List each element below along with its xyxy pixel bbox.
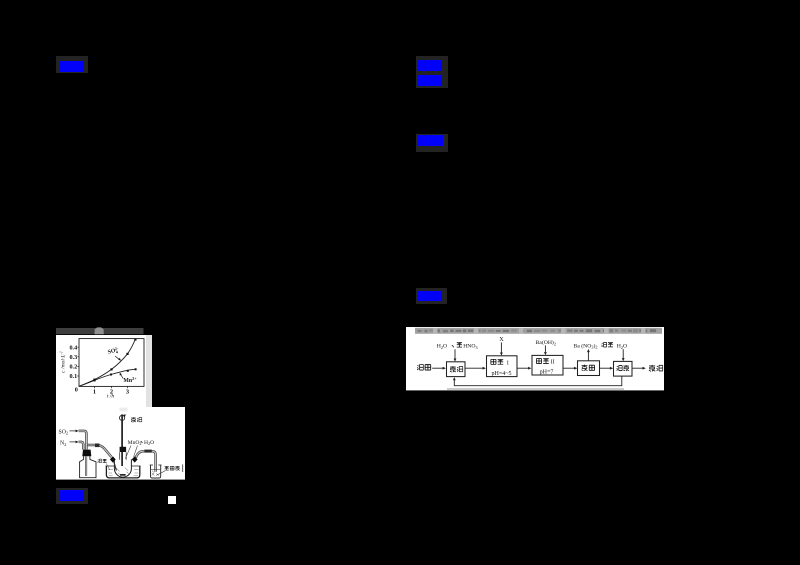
stirrer shaft (121, 414, 123, 466)
tube N2 to junction (outer) (79, 442, 84, 450)
tube flask to beaker (outer) (136, 451, 156, 472)
white apparatus panel (56, 407, 185, 480)
output label 残渣 (649, 365, 655, 372)
SO4 curve (79, 339, 135, 386)
white flowchart panel (406, 327, 664, 390)
box1 酸溶 (447, 362, 466, 377)
svg-text:0.4: 0.4 (69, 344, 77, 351)
dark coupler on junction tube (95, 444, 99, 448)
SO4 data points (93, 338, 136, 380)
arrow box3 to box4 (563, 367, 574, 369)
scrollbar thumb tab (95, 327, 104, 334)
svg-text:X: X (499, 336, 504, 343)
shared pseudo-glyph symbol defs (0, 0, 1, 1)
link badge 4 (right col lower) (416, 288, 447, 304)
svg-text:1: 1 (93, 389, 96, 396)
Mn data points (94, 368, 137, 381)
faint tab at top (120, 408, 128, 412)
flask vessel (wide U) (114, 459, 131, 477)
x axis labels (93, 389, 129, 396)
arrow box5 to output (632, 367, 643, 369)
scrollbar bar above graph (56, 328, 144, 334)
dark coupler on outlet tube (144, 450, 151, 453)
right port stopper (132, 456, 138, 462)
svg-text:H2O: H2O (617, 344, 627, 350)
basin rim line (106, 465, 141, 467)
light strip at bottom (447, 388, 624, 390)
tube inner cores (79, 431, 87, 450)
beaker liquid hatching (152, 471, 159, 476)
svg-text:HNO3: HNO3 (463, 344, 477, 350)
box3 中和II pH=7 (532, 355, 563, 375)
arrow box4 to box5 (600, 367, 611, 369)
box2 中和1 pH=4~5 (487, 356, 518, 377)
N2 arrow (70, 441, 77, 443)
arrow up from box4 (587, 352, 589, 361)
svg-text:N2: N2 (60, 441, 66, 447)
Mn label arrow (120, 374, 123, 378)
link badge 1 (top-left) (56, 56, 88, 73)
gas inlet tube inside flask (114, 462, 117, 471)
Mn curve (79, 369, 136, 386)
svg-text:1: 1 (506, 360, 509, 366)
plot frame (79, 339, 144, 387)
input label 钡泥 (417, 365, 423, 371)
light gray strip right of panel (146, 335, 152, 408)
recycle line box5 bottom to box1 bottom (454, 376, 622, 386)
石灰乳 label (165, 466, 169, 470)
svg-text:3: 3 (126, 389, 129, 396)
leader to beaker (156, 471, 165, 475)
svg-text:pH=4~5: pH=4~5 (492, 371, 512, 377)
rubber stopper on bottle (82, 450, 91, 457)
box5 洗涤 (614, 361, 633, 376)
SO2 arrow (70, 430, 77, 432)
watermark strip (415, 328, 662, 334)
svg-text:t /h: t /h (107, 394, 115, 400)
svg-text:H2O: H2O (437, 344, 447, 350)
center neck lines (120, 452, 127, 460)
link badge 3 (right col) (416, 134, 448, 152)
svg-text:Ba (NO3)2: Ba (NO3)2 (574, 342, 598, 349)
svg-text:MnO2: MnO2 (128, 440, 142, 446)
svg-text:pH=7: pH=7 (540, 369, 554, 375)
arrow down H2O into box5 (622, 349, 624, 358)
svg-text:SO2: SO2 (59, 429, 69, 435)
shaft bearing block (120, 447, 127, 452)
arrow down X into box2 (500, 342, 502, 353)
arrow down into box1 (454, 349, 456, 359)
arrow down Ba(OH)2 into box3 (544, 345, 546, 352)
SO4 label arrow (115, 356, 120, 360)
stirrer paddle (120, 474, 126, 476)
left port stopper (110, 456, 116, 462)
link badge 2 (right col, double) (416, 56, 448, 88)
arrow box1 to box2 (465, 367, 483, 369)
svg-text:H2O: H2O (144, 440, 154, 446)
水浴 label (98, 459, 102, 463)
水浴 leader (106, 463, 110, 469)
svg-text:0: 0 (75, 387, 78, 394)
arrow input to box1 (432, 367, 443, 369)
beaker rim ticks (150, 464, 162, 466)
svg-text:0.1: 0.1 (69, 373, 77, 380)
x tick marks (95, 386, 128, 388)
water-bath basin (106, 466, 139, 478)
tube junction to flask (outer) (88, 445, 112, 457)
reaction apparatus image (56, 407, 185, 480)
y tick marks (77, 347, 79, 376)
arrow box2 to box3 (517, 367, 528, 369)
y axis labels (69, 344, 77, 393)
svg-text:0.2: 0.2 (69, 364, 77, 371)
svg-text:0.3: 0.3 (69, 354, 77, 361)
bottle inner tube (85, 457, 86, 477)
white graph panel (56, 335, 146, 408)
thin vertical mark at right (182, 464, 184, 472)
basin water hatching (108, 470, 139, 476)
svg-text:II: II (551, 359, 555, 365)
lime-milk beaker (151, 465, 161, 478)
concentration-vs-time graph image (56, 326, 152, 408)
flask liquid hatching (117, 468, 129, 476)
stirrer rotation symbol (120, 415, 125, 420)
gas bottle (80, 456, 96, 478)
beaker liquid line (151, 468, 160, 470)
tube SO2 to valve (outer) (79, 431, 87, 450)
stirrer label 搅拌 (131, 417, 136, 422)
process flowchart image (406, 327, 664, 391)
link badge 5 (bottom-left) (56, 488, 88, 504)
label leader lines (125, 446, 137, 459)
box4 过滤 (578, 361, 600, 376)
small white square marker (168, 496, 176, 505)
